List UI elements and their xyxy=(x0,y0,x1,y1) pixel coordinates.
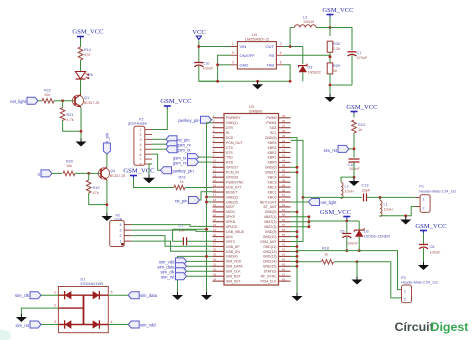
junction right GND row 26 xyxy=(291,245,299,248)
wire ground rail under U4 xyxy=(199,80,290,83)
svg-text:2.2k: 2.2k xyxy=(333,47,340,51)
svg-text:SPKN: SPKN xyxy=(226,220,236,224)
svg-text:61: 61 xyxy=(282,243,285,247)
svg-text:GND(13): GND(13) xyxy=(263,255,277,259)
svg-text:sim_rst: sim_rst xyxy=(16,323,30,328)
wire GSM_VCC to L3 node xyxy=(329,17,332,29)
net label net_light (left) xyxy=(10,97,38,104)
svg-text:7: 7 xyxy=(140,158,142,162)
svg-text:SIM_CLK: SIM_CLK xyxy=(226,270,241,274)
wire sim_rst to R24 node xyxy=(349,148,355,151)
power flag GSM_VCC (top-left) xyxy=(72,29,104,40)
svg-text:GND(14): GND(14) xyxy=(263,260,277,264)
D1 pin numbers xyxy=(54,291,113,325)
net label net_light (U3) xyxy=(309,198,338,205)
svg-text:100uH: 100uH xyxy=(303,20,314,24)
ground (D1 pin2) xyxy=(16,314,27,322)
svg-text:GPIO19: GPIO19 xyxy=(226,176,238,180)
wire U3 NETLIGHT to net_light xyxy=(291,201,309,203)
svg-text:KBR2: KBR2 xyxy=(268,151,277,155)
svg-text:R24: R24 xyxy=(358,123,365,127)
svg-text:KBC0: KBC0 xyxy=(268,195,277,199)
svg-text:100uF: 100uF xyxy=(203,67,214,71)
wire net_light to R22 xyxy=(38,100,42,102)
svg-text:GSM_ANT: GSM_ANT xyxy=(260,240,276,244)
svg-text:470: 470 xyxy=(84,53,90,57)
svg-text:48: 48 xyxy=(282,178,285,182)
svg-text:KBC4: KBC4 xyxy=(268,176,277,180)
svg-text:1N5822: 1N5822 xyxy=(308,70,321,74)
junction node Q4 base xyxy=(87,172,90,175)
svg-text:Círcuit: Círcuit xyxy=(395,320,434,334)
wire P2 pin4 to gsm_rx xyxy=(152,143,166,145)
svg-text:VBAT(3): VBAT(3) xyxy=(264,225,277,229)
svg-text:GND(9): GND(9) xyxy=(265,230,277,234)
svg-text:GND(5): GND(5) xyxy=(265,136,277,140)
svg-text:29: 29 xyxy=(213,253,216,257)
svg-text:R29: R29 xyxy=(333,64,340,68)
svg-text:PWM0: PWM0 xyxy=(266,116,276,120)
svg-text:P1: P1 xyxy=(419,185,424,189)
svg-text:GSM_VCC: GSM_VCC xyxy=(346,104,378,111)
svg-text:SIM_VDD: SIM_VDD xyxy=(226,260,242,264)
svg-text:U4: U4 xyxy=(252,33,257,37)
resistor R21 xyxy=(60,101,73,122)
svg-text:R20: R20 xyxy=(66,160,73,164)
junction right GND row 27 xyxy=(291,250,299,253)
svg-text:6: 6 xyxy=(140,153,142,157)
svg-text:ON/OFF: ON/OFF xyxy=(240,53,256,58)
svg-text:32: 32 xyxy=(213,267,216,271)
wire GSM_VCC to VBAT rail xyxy=(345,219,348,222)
inductor L1 xyxy=(380,197,393,216)
svg-text:44: 44 xyxy=(282,159,285,163)
svg-text:37: 37 xyxy=(282,124,285,128)
svg-text:24: 24 xyxy=(213,228,216,232)
svg-text:5: 5 xyxy=(140,148,142,152)
resistor R24 xyxy=(352,120,365,133)
svg-text:2: 2 xyxy=(404,297,406,301)
svg-text:RF_SYNC: RF_SYNC xyxy=(261,275,277,279)
resistor R30 xyxy=(327,28,340,53)
ground (regulator rail) xyxy=(252,81,263,89)
wire U3 GND bus left xyxy=(207,123,213,292)
svg-text:470uF: 470uF xyxy=(357,56,368,60)
wire P2 pin5 to gsm_tx xyxy=(152,148,166,150)
svg-text:43: 43 xyxy=(282,154,285,158)
inductor L2 xyxy=(341,183,354,199)
wire C7 to U3 VRTC xyxy=(187,240,213,242)
ground (below U3 left) xyxy=(172,292,183,300)
svg-text:Header-Male-2.54_1x2: Header-Male-2.54_1x2 xyxy=(401,281,438,285)
svg-text:net_light: net_light xyxy=(10,99,27,104)
svg-text:STATUS: STATUS xyxy=(264,270,278,274)
svg-text:20: 20 xyxy=(213,208,216,212)
svg-text:14: 14 xyxy=(213,178,216,182)
capacitor C13 xyxy=(362,184,371,202)
net label pwrkey_pin (lower) xyxy=(161,167,195,174)
svg-text:33: 33 xyxy=(213,272,216,276)
svg-text:33pF: 33pF xyxy=(362,189,371,193)
svg-text:18: 18 xyxy=(213,198,216,202)
wire OUT to switch node xyxy=(283,28,303,48)
wire C18 to ground xyxy=(353,162,356,179)
D1 internal wiring xyxy=(58,295,108,324)
wire sim_clk to D1 pin1 xyxy=(41,294,58,296)
svg-text:67: 67 xyxy=(282,272,285,276)
svg-text:DIODE-ZENER: DIODE-ZENER xyxy=(364,235,390,239)
svg-text:USB_VBUS: USB_VBUS xyxy=(226,230,245,234)
wire R24 to C18 xyxy=(353,133,355,158)
svg-text:PWM1: PWM1 xyxy=(266,121,276,125)
diode array D1 ESDA6V1W5 xyxy=(58,278,108,333)
wire ri_pin to Q4 collector xyxy=(106,154,108,167)
transistor Q4 xyxy=(98,167,125,180)
junction right GND row 11 xyxy=(291,171,299,174)
power flag VCC xyxy=(192,29,206,40)
wire ground rail C6 D2 xyxy=(297,250,359,252)
wire R20 to Q4 base xyxy=(75,172,101,174)
junction right GND row 10 xyxy=(291,166,299,169)
svg-text:1k: 1k xyxy=(324,253,328,257)
LED D5 xyxy=(76,72,93,80)
wire GSM_VCC to R14 xyxy=(80,39,82,47)
svg-text:gsm_rx: gsm_rx xyxy=(173,160,188,165)
diode D2 zener xyxy=(354,229,391,239)
net label gsm_rx (P2) xyxy=(166,141,192,148)
svg-text:62: 62 xyxy=(282,248,285,252)
resistor R23 xyxy=(174,176,185,190)
connector P1 Header-Male-2.54_1x2 xyxy=(415,185,456,213)
svg-text:10uH: 10uH xyxy=(384,208,393,212)
svg-text:1k: 1k xyxy=(333,69,337,73)
wire D1 pin5 to sim_data xyxy=(108,294,128,296)
svg-text:26: 26 xyxy=(213,238,216,242)
net label gsm_tx (TXD) xyxy=(173,154,199,161)
capacitor C6 xyxy=(340,230,359,246)
svg-text:VBAT(1): VBAT(1) xyxy=(264,215,277,219)
svg-text:R14: R14 xyxy=(84,48,91,52)
svg-text:KBR4: KBR4 xyxy=(268,141,277,145)
svg-text:45: 45 xyxy=(282,164,285,168)
wire C1 bottom xyxy=(351,55,353,85)
junction node Q1 base xyxy=(61,99,64,102)
wire gsm_tx to U3 TXD xyxy=(199,156,213,158)
net label sim_clk (D1) xyxy=(15,292,41,299)
svg-text:C1: C1 xyxy=(357,51,362,55)
wire P2 pin8 to ground xyxy=(149,164,152,175)
svg-text:sim_rst: sim_rst xyxy=(161,274,175,279)
svg-text:SIM_DATA: SIM_DATA xyxy=(226,265,243,269)
wire sim_clk to U3 xyxy=(187,270,213,272)
corner artifact xyxy=(0,330,11,340)
wire Q1 emitter xyxy=(80,108,82,139)
wire D1 pin2 to ground xyxy=(21,308,58,314)
svg-text:D3: D3 xyxy=(308,66,313,70)
junction L1 ground xyxy=(404,214,407,217)
wire GSM_VCC to R23 xyxy=(134,178,175,188)
svg-text:VDD_EXT: VDD_EXT xyxy=(226,185,242,189)
svg-text:60: 60 xyxy=(282,238,285,242)
svg-text:GND(15): GND(15) xyxy=(263,265,277,269)
svg-text:GSM_VCC: GSM_VCC xyxy=(160,98,192,105)
svg-text:10: 10 xyxy=(213,159,216,163)
net label gsm_tx (P2) xyxy=(166,146,191,153)
net label rst_pin (RESET) xyxy=(175,197,200,204)
svg-text:10uH: 10uH xyxy=(345,190,354,194)
ground (L1/P1) xyxy=(400,217,411,225)
wire R22 to Q1 base xyxy=(54,100,75,102)
wire to P3 pin2 xyxy=(357,262,402,298)
svg-text:4: 4 xyxy=(120,223,122,227)
svg-text:5: 5 xyxy=(111,291,113,295)
svg-text:58: 58 xyxy=(282,228,285,232)
inductor L3 xyxy=(290,15,330,27)
svg-text:KBR3: KBR3 xyxy=(268,146,277,150)
svg-text:pwrkey_pin: pwrkey_pin xyxy=(178,118,200,123)
svg-text:BC817-25: BC817-25 xyxy=(84,101,99,105)
svg-text:54: 54 xyxy=(282,208,285,212)
svg-text:52: 52 xyxy=(282,198,285,202)
svg-text:PCM_IN: PCM_IN xyxy=(226,171,239,175)
junction right GND row 24 xyxy=(291,235,299,238)
wire gsm_rx to U3 RXD xyxy=(199,161,213,163)
wire R21 to emitter node xyxy=(63,121,81,132)
svg-text:PWRKEY: PWRKEY xyxy=(226,116,241,120)
svg-text:3: 3 xyxy=(232,60,234,64)
svg-text:RXD: RXD xyxy=(226,161,234,165)
svg-text:RI: RI xyxy=(226,131,229,135)
svg-text:D2: D2 xyxy=(364,230,369,234)
svg-text:P3: P3 xyxy=(401,276,406,280)
svg-text:KBC3: KBC3 xyxy=(268,180,277,184)
svg-text:KPLED: KPLED xyxy=(226,225,238,229)
svg-text:49: 49 xyxy=(282,183,285,187)
svg-text:C10: C10 xyxy=(203,62,210,66)
wire H2 pin3 to U3 USB_VBUS xyxy=(132,230,213,231)
svg-text:56: 56 xyxy=(282,218,285,222)
svg-text:ESDA6V1W5: ESDA6V1W5 xyxy=(81,282,104,286)
junction right GND row 23 xyxy=(291,230,299,233)
svg-text:GND(3): GND(3) xyxy=(226,200,238,204)
ground (Q4 emitter / H2) xyxy=(101,213,112,221)
svg-text:1: 1 xyxy=(232,42,234,46)
svg-text:1: 1 xyxy=(120,240,122,244)
svg-text:35: 35 xyxy=(282,114,285,118)
svg-text:55: 55 xyxy=(282,213,285,217)
ground (U3 right bus) xyxy=(292,293,303,301)
svg-text:R19: R19 xyxy=(93,186,100,190)
svg-text:LM2596SX-12: LM2596SX-12 xyxy=(245,37,269,41)
svg-text:51: 51 xyxy=(282,193,285,197)
wire R23 to U3 VDD_EXT xyxy=(185,187,213,189)
wire D1 pin4 to sim_vdd xyxy=(108,324,128,326)
svg-text:2: 2 xyxy=(54,304,56,308)
ground (C18) xyxy=(349,178,360,186)
svg-text:GPIO17: GPIO17 xyxy=(226,166,238,170)
wire R29 bottom rail xyxy=(329,74,352,94)
resistor R29 xyxy=(327,63,340,74)
svg-text:28: 28 xyxy=(213,248,216,252)
svg-text:Q4: Q4 xyxy=(110,169,115,173)
wire C8 to ground xyxy=(423,248,425,262)
logo CircuitDigest xyxy=(395,320,469,334)
wire U3 VBAT rail xyxy=(291,215,360,228)
svg-text:GSM_VCC: GSM_VCC xyxy=(415,223,447,230)
svg-text:31: 31 xyxy=(213,263,216,267)
connector P2 gsmHeader xyxy=(128,117,152,166)
svg-text:47: 47 xyxy=(282,173,285,177)
resistor R19 xyxy=(86,173,99,195)
svg-text:GND(10): GND(10) xyxy=(263,235,277,239)
svg-text:1: 1 xyxy=(404,289,406,293)
wire D2 xyxy=(358,221,361,252)
svg-text:1: 1 xyxy=(140,128,142,132)
junction right GND row 19 xyxy=(291,210,299,213)
junction GND(4) xyxy=(178,255,213,258)
svg-text:RTS: RTS xyxy=(226,151,233,155)
svg-text:65: 65 xyxy=(282,263,285,267)
svg-text:38: 38 xyxy=(282,129,285,133)
svg-text:R23: R23 xyxy=(179,176,186,180)
resistor R22 xyxy=(42,89,54,104)
svg-text:3: 3 xyxy=(140,138,142,142)
wire R18 node to ground xyxy=(356,262,358,277)
ground (R18 node) xyxy=(352,277,363,285)
wire P2 pin3 to rst_pin xyxy=(152,138,166,140)
svg-text:ADC: ADC xyxy=(226,235,234,239)
svg-text:66: 66 xyxy=(282,267,285,271)
svg-text:39: 39 xyxy=(282,134,285,138)
svg-text:57: 57 xyxy=(282,223,285,227)
svg-text:41: 41 xyxy=(282,144,285,148)
svg-text:Digest: Digest xyxy=(431,320,469,334)
wire C13 to P1 xyxy=(367,196,416,199)
net label sim_vdd (U3) xyxy=(159,258,187,265)
svg-text:100nF: 100nF xyxy=(347,241,358,245)
svg-text:SIM_DET: SIM_DET xyxy=(226,279,241,283)
svg-text:10k: 10k xyxy=(44,93,50,97)
junction right GND row 30 xyxy=(291,265,299,268)
svg-text:gsm_tx: gsm_tx xyxy=(177,147,191,152)
svg-text:36: 36 xyxy=(282,119,285,123)
svg-text:68: 68 xyxy=(282,277,285,281)
wire sim_rst to D1 pin3 xyxy=(41,324,58,326)
svg-text:GND(4): GND(4) xyxy=(226,255,238,259)
svg-text:L1: L1 xyxy=(384,203,388,207)
svg-text:C8: C8 xyxy=(430,245,435,249)
net label gsm_rx (RXD) xyxy=(173,159,199,166)
wire L1 to ground node xyxy=(380,207,415,217)
svg-text:3: 3 xyxy=(120,229,122,233)
junction node Q1 emitter xyxy=(80,130,83,133)
D1 diode c xyxy=(65,320,72,328)
svg-text:10k: 10k xyxy=(66,164,72,168)
ground (Q1 emitter) xyxy=(76,139,87,147)
svg-text:4: 4 xyxy=(111,320,113,324)
svg-text:GND(7): GND(7) xyxy=(265,171,277,175)
junction GND(2) xyxy=(205,196,212,199)
svg-text:46: 46 xyxy=(282,168,285,172)
svg-text:4: 4 xyxy=(280,51,282,55)
wire sim_rst to U3 xyxy=(187,275,213,277)
svg-text:PCM_CLK: PCM_CLK xyxy=(260,279,277,283)
svg-text:4.7k: 4.7k xyxy=(67,118,74,122)
wire D5 to Q1 collector xyxy=(80,80,82,96)
capacitor C8 xyxy=(419,245,441,255)
svg-text:1: 1 xyxy=(423,197,425,201)
svg-text:SCL: SCL xyxy=(270,131,277,135)
ground (C1/R29) xyxy=(325,94,336,102)
power flag GSM_VCC (above P2) xyxy=(160,98,192,109)
wire sim_data to U3 xyxy=(187,265,213,267)
power flag GSM_VCC (VBAT) xyxy=(320,209,352,219)
svg-text:15: 15 xyxy=(213,183,216,187)
svg-text:L2: L2 xyxy=(345,185,349,189)
svg-text:net_light: net_light xyxy=(321,200,338,205)
svg-text:59: 59 xyxy=(282,233,285,237)
svg-text:13: 13 xyxy=(213,173,216,177)
svg-text:USB_DP: USB_DP xyxy=(226,245,240,249)
wire U3 GSM_ANT to antenna net xyxy=(291,140,304,241)
svg-text:CTS: CTS xyxy=(226,146,234,150)
svg-text:pwrkey_pin: pwrkey_pin xyxy=(173,168,195,173)
wire C6 xyxy=(345,221,348,252)
junction right GND row 28 xyxy=(291,255,299,258)
svg-text:D1: D1 xyxy=(81,278,86,282)
svg-text:19: 19 xyxy=(213,203,216,207)
net label sim_rst (U3) xyxy=(161,273,187,280)
power flag GSM_VCC (below P2) xyxy=(123,168,155,178)
svg-text:GND: GND xyxy=(240,62,249,67)
wire P2 pin6 to pwrkey_pin xyxy=(152,154,161,170)
capacitor C18 xyxy=(348,159,361,171)
wire GSM_VCC to C8 xyxy=(423,233,425,245)
wire U3 right GND bus xyxy=(291,138,298,293)
svg-text:sim_clk: sim_clk xyxy=(15,293,30,298)
junction GND(3) xyxy=(205,201,212,204)
wire R19 to emitter node xyxy=(89,193,107,205)
svg-text:NETLIGHT: NETLIGHT xyxy=(260,200,277,204)
wire C18 node to L2 xyxy=(341,177,354,182)
svg-text:1k: 1k xyxy=(180,180,184,184)
resistor R14 xyxy=(78,47,91,60)
wire antenna node to C13 xyxy=(341,196,362,198)
svg-text:23: 23 xyxy=(213,223,216,227)
net label rst_pin (P2) xyxy=(166,136,190,143)
net label pwrkey_pin (top) xyxy=(178,116,211,123)
wire H2 pin2 to U3 USB_DP xyxy=(132,236,213,247)
svg-text:TXD: TXD xyxy=(226,156,233,160)
svg-text:63: 63 xyxy=(282,253,285,257)
junction antenna node xyxy=(302,196,305,199)
svg-text:KBC1: KBC1 xyxy=(268,190,277,194)
wire pwrkey_pin to U3 PWRKEY xyxy=(212,119,213,121)
net label sim_rst (D1) xyxy=(16,321,42,328)
D1 diode d xyxy=(93,320,100,328)
svg-text:sim_vdd: sim_vdd xyxy=(140,323,156,328)
wire GSM_VCC to R24 xyxy=(353,114,355,118)
svg-text:2: 2 xyxy=(140,133,142,137)
svg-text:40: 40 xyxy=(282,139,285,143)
svg-text:Header-Male-2.54_1x2: Header-Male-2.54_1x2 xyxy=(419,189,456,193)
svg-text:Q1: Q1 xyxy=(84,96,89,100)
wire to left ground below chip xyxy=(177,256,179,292)
svg-text:12: 12 xyxy=(213,168,216,172)
svg-text:R18: R18 xyxy=(322,247,329,251)
wire GSM_VCC to P2 pin1 xyxy=(152,109,167,130)
svg-text:KBC2: KBC2 xyxy=(268,185,277,189)
